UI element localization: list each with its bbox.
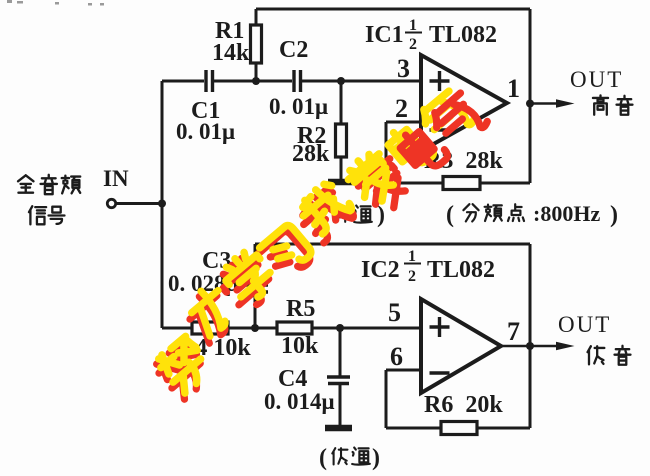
svg-text:R6 20k: R6 20k <box>424 392 503 418</box>
svg-text:1: 1 <box>409 17 417 34</box>
svg-text:): ) <box>372 445 380 471</box>
svg-text:TL082: TL082 <box>427 257 495 283</box>
svg-text:28k: 28k <box>292 141 330 167</box>
svg-text:IC2: IC2 <box>361 257 400 283</box>
svg-text:3: 3 <box>397 54 410 83</box>
svg-text:10k: 10k <box>281 333 319 359</box>
svg-text:IN: IN <box>103 166 129 191</box>
svg-text:OUT: OUT <box>558 312 611 337</box>
svg-text:0. 01μ: 0. 01μ <box>176 119 235 144</box>
svg-text:0. 01μ: 0. 01μ <box>269 94 328 119</box>
svg-text:5: 5 <box>388 298 401 327</box>
svg-text:IC1: IC1 <box>365 22 404 48</box>
svg-text:OUT: OUT <box>570 67 623 92</box>
svg-text:TL082: TL082 <box>429 22 497 48</box>
svg-text:6: 6 <box>390 342 403 371</box>
svg-text:2: 2 <box>408 268 416 285</box>
svg-text:R5: R5 <box>286 296 315 322</box>
svg-text:1: 1 <box>507 74 520 103</box>
svg-text:C2: C2 <box>279 37 308 63</box>
svg-text:2: 2 <box>409 36 417 53</box>
svg-text:7: 7 <box>507 317 520 346</box>
svg-text:1: 1 <box>408 248 416 265</box>
svg-text:0. 014μ: 0. 014μ <box>264 389 335 414</box>
svg-text:2: 2 <box>395 94 408 123</box>
svg-text:(: ( <box>319 445 327 471</box>
svg-text:): ) <box>610 202 618 228</box>
svg-text::800Hz: :800Hz <box>533 201 600 226</box>
svg-text:14k: 14k <box>212 40 250 66</box>
svg-text:(: ( <box>446 202 454 228</box>
